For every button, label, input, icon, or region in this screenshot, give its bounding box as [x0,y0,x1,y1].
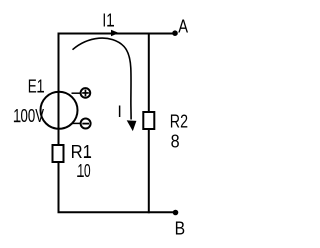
E1 plus terminal lead [72,92,81,94]
E1 plus terminal [81,88,91,98]
current I arrowhead [127,120,137,131]
node A terminal dot [172,30,178,36]
wire: right vertical branch [148,33,150,214]
node B terminal dot [173,210,179,216]
svg-text:I: I [117,103,122,121]
serif foot of digit 1 in I1 [107,25,114,27]
wire: bottom horizontal [58,211,176,213]
svg-text:100V: 100V [13,105,44,126]
voltage source E1 circle [41,92,78,129]
svg-text:A: A [178,16,188,37]
E1 minus terminal lead [72,122,82,124]
wire: top horizontal [58,33,176,35]
E1 minus terminal [81,119,91,129]
current I curved arrow path [73,38,132,119]
serif foot of digit 1 in E1 [37,91,44,93]
svg-text:I1: I1 [102,10,114,31]
serif foot of digit 1 in 10 [77,175,84,177]
current I1 arrowhead [111,30,119,37]
resistor R1 body [53,145,64,162]
svg-text:E1: E1 [28,76,45,97]
svg-text:10: 10 [77,160,90,181]
serif foot of digit 1 in R1 [84,156,91,158]
svg-text:B: B [175,218,186,239]
wire: left vertical branch [58,33,60,214]
svg-text:8: 8 [171,131,180,152]
resistor R2 body [143,112,154,129]
svg-text:R1: R1 [71,141,92,162]
serif foot of digit 1 in 100V [14,121,21,123]
svg-text:R2: R2 [170,110,188,131]
